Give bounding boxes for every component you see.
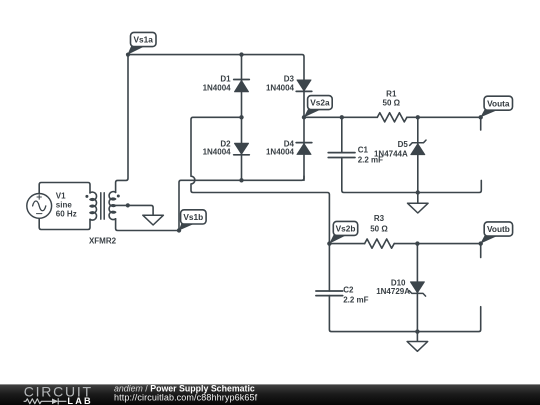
node dot D5 junction (416, 115, 420, 119)
svg-text:R3: R3 (374, 214, 385, 223)
svg-text:Vs1b: Vs1b (183, 212, 203, 222)
svg-text:LAB: LAB (67, 396, 92, 405)
resistor R3 (365, 239, 395, 248)
transformer core (101, 193, 104, 219)
label C2 (343, 285, 368, 304)
label D1 (203, 75, 232, 93)
wire Vs2b rail left of R3 (329, 243, 364, 245)
svg-text:D3: D3 (284, 75, 295, 84)
node flag Vs1b (179, 210, 207, 231)
wire V1 top loop (39, 183, 90, 194)
svg-text:1N4744A: 1N4744A (374, 149, 408, 158)
node dot Vouta (479, 115, 483, 119)
label D2 (203, 140, 232, 157)
node dot D1-D2 junction (239, 115, 243, 119)
node dot C1 junction (340, 115, 344, 119)
wire center tap to ground (116, 205, 154, 215)
node dot upper ground junction (416, 190, 420, 194)
secondary phase dot (117, 195, 120, 198)
label R1 (383, 90, 401, 108)
wire V1 bottom loop (39, 218, 90, 229)
svg-text:D5: D5 (398, 140, 409, 149)
ground (transformer center tap) (143, 215, 164, 225)
svg-text:1N4004: 1N4004 (203, 147, 232, 156)
svg-text:1N4004: 1N4004 (266, 147, 295, 156)
label D4 (266, 140, 295, 157)
svg-text:Vs1a: Vs1a (134, 35, 154, 45)
svg-text:Vs2a: Vs2a (310, 98, 330, 108)
wire Voutb stub (480, 244, 482, 258)
wire bridge negative: D1/D2 node left, down with hop, to Vs2b (191, 117, 329, 243)
wire Vs2a rail right of R1 to Vouta (407, 116, 481, 118)
node dot Vs1a corner (126, 53, 130, 57)
node flag Vs2a (304, 96, 332, 118)
primary phase dot (85, 195, 88, 198)
svg-text:1N4004: 1N4004 (266, 83, 295, 92)
wire D4 branch (303, 117, 305, 180)
zener diode D5 (410, 140, 426, 155)
wire Vouta stub (480, 117, 482, 130)
CircuitLab logo symbol line (24, 399, 66, 405)
ground (upper section) (408, 193, 429, 214)
svg-text:C2: C2 (343, 285, 354, 294)
svg-text:50 Ω: 50 Ω (370, 224, 388, 233)
svg-text:1N4729A: 1N4729A (376, 287, 410, 296)
node dot Voutb (479, 241, 483, 245)
svg-text:Vouta: Vouta (487, 98, 510, 108)
wire C1 lower lead and upper ground rail (342, 158, 482, 193)
zener diode D10 (409, 282, 425, 296)
svg-text:Vs2b: Vs2b (336, 224, 356, 234)
diode D4 (296, 143, 312, 155)
label C1 (358, 145, 383, 164)
svg-text:Voutb: Voutb (487, 224, 510, 234)
svg-text:50 Ω: 50 Ω (383, 99, 401, 108)
capacitor C2 (316, 291, 343, 296)
node flag Vouta (480, 96, 512, 117)
wire Vs1b up to bridge rail H1 (179, 176, 304, 230)
diode D2 (234, 143, 250, 155)
svg-text:D1: D1 (220, 75, 231, 84)
wire D10 branch (416, 244, 418, 332)
wire C1 upper lead (341, 117, 343, 152)
wire C2 lower lead and lower ground rail (329, 296, 480, 332)
label R3 (370, 214, 388, 233)
label D3 (266, 75, 295, 93)
node dot H1 D2 junction (239, 178, 243, 182)
ground (lower section) (407, 332, 428, 352)
wire Vs2b rail right of R3 to Voutb (394, 243, 481, 245)
svg-text:http://circuitlab.com/c88hhryp: http://circuitlab.com/c88hhryp6k65f (114, 392, 258, 402)
wire Vs2a rail left of R1 (304, 116, 377, 118)
transformer XFMR2 primary winding (90, 192, 97, 220)
svg-text:60 Hz: 60 Hz (56, 210, 77, 219)
node flag Voutb (480, 222, 512, 244)
svg-text:sine: sine (56, 201, 73, 210)
wire D2 branch (241, 117, 243, 180)
diode D1 (234, 80, 250, 92)
capacitor C1 (328, 153, 355, 158)
svg-text:C1: C1 (358, 145, 369, 154)
resistor R1 (377, 113, 407, 122)
wire secondary top to Vs1a to top rail to D3 (116, 55, 304, 193)
label D10 (376, 278, 410, 296)
node dot top rail (239, 52, 243, 56)
center tap node dot (126, 203, 130, 207)
wire D5 branch (417, 117, 419, 192)
node flag Vs2b (329, 221, 357, 243)
svg-text:1N4004: 1N4004 (203, 83, 232, 92)
label V1 sine 60 Hz (56, 191, 77, 218)
node dot R3-D10 junction (415, 241, 419, 245)
node dot Vs2a (302, 115, 306, 119)
svg-text:2.2 mF: 2.2 mF (343, 296, 368, 305)
svg-text:V1: V1 (56, 191, 66, 200)
wire C2 upper lead (328, 244, 330, 291)
wire D1 branch (241, 55, 243, 118)
node dot Vs1b (177, 228, 181, 232)
node flag Vs1a (127, 32, 156, 54)
label D5 (374, 140, 408, 159)
transformer XFMR2 secondary winding (109, 192, 116, 220)
voltage source V1 (27, 194, 52, 219)
wire secondary bottom to Vs1b (116, 219, 179, 231)
node dot Vs2b (327, 241, 331, 245)
node dot lower ground junction (415, 329, 419, 333)
svg-text:R1: R1 (386, 90, 397, 99)
svg-text:XFMR2: XFMR2 (89, 236, 117, 245)
diode D3 (296, 80, 312, 91)
